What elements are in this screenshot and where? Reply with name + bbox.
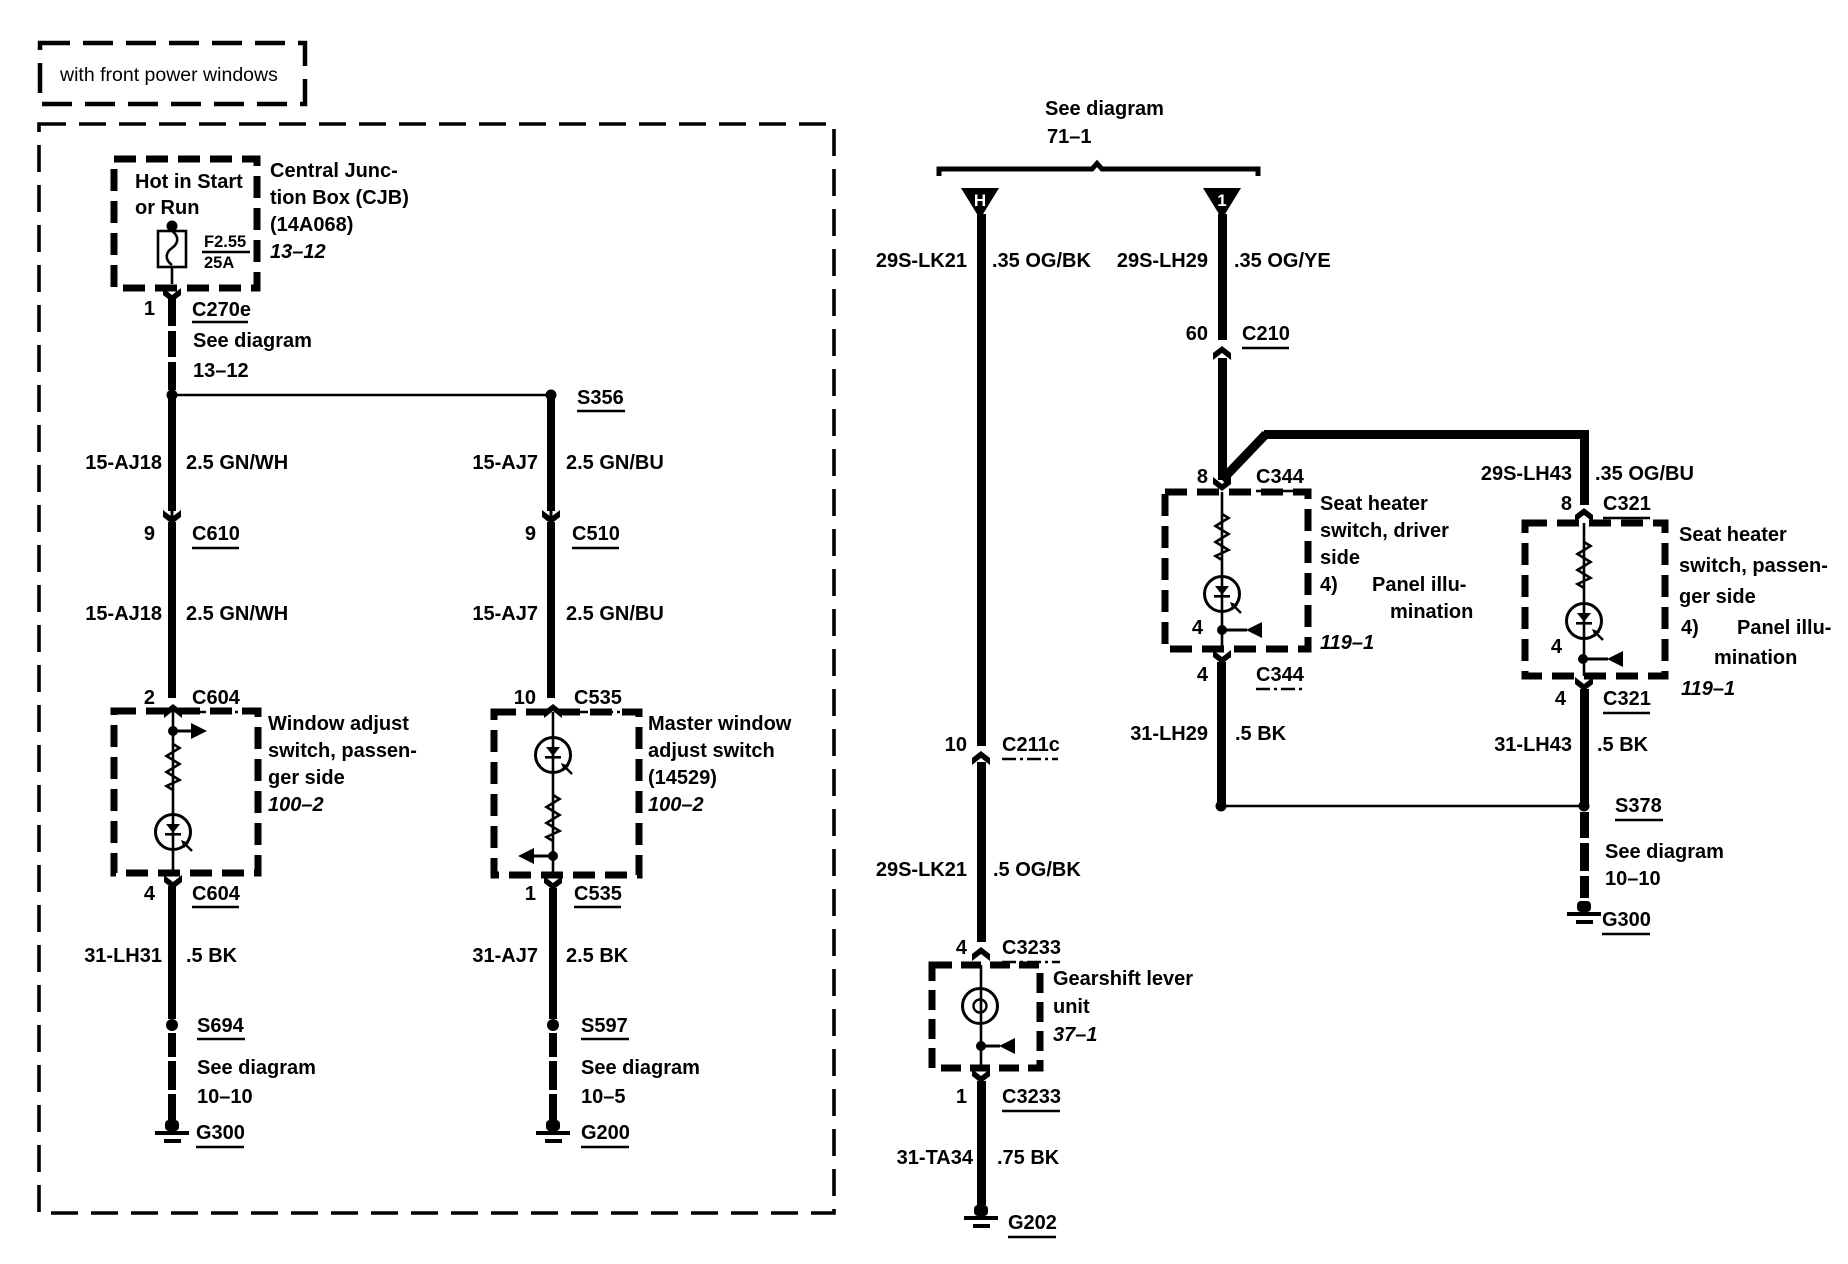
svg-text:switch, passen-: switch, passen- <box>1679 555 1828 577</box>
wire 31-LH43 run <box>1580 689 1589 806</box>
svg-text:2.5 GN/WH: 2.5 GN/WH <box>186 603 288 625</box>
connector C211c arrow (up) <box>972 751 990 765</box>
svg-text:2.5 BK: 2.5 BK <box>566 945 629 967</box>
label S694 <box>197 1015 245 1039</box>
internal wire (passenger window switch) <box>172 711 175 873</box>
connector C210 arrow (up) <box>1213 346 1231 360</box>
lamp (passenger window switch) <box>156 815 193 852</box>
pin label 60 / C210 <box>1186 323 1290 348</box>
wire 31-TA34 run <box>977 1081 986 1205</box>
svg-text:4: 4 <box>1551 636 1563 658</box>
resistor (driver seat heater) <box>1216 514 1229 560</box>
wire dashed segment to splice node <box>168 331 176 390</box>
svg-text:C270e: C270e <box>192 299 251 321</box>
svg-text:Window adjust: Window adjust <box>268 713 409 735</box>
wire labels 31-LH31 .5 BK <box>84 945 237 967</box>
svg-text:(14529): (14529) <box>648 767 717 789</box>
svg-text:.5 BK: .5 BK <box>1235 723 1287 745</box>
master window adjust switch box <box>494 712 639 875</box>
splice S378 right dot <box>1579 801 1590 812</box>
branch horizontal wire 29S-LH43 <box>1264 430 1589 439</box>
ground G200 <box>536 1120 570 1143</box>
svg-text:Panel illu-: Panel illu- <box>1737 617 1831 639</box>
svg-text:See diagram: See diagram <box>1045 98 1164 120</box>
pin label 1 / C535 lower <box>525 883 622 907</box>
connector triangle 1 <box>1203 188 1241 219</box>
svg-text:31-LH29: 31-LH29 <box>1130 723 1208 745</box>
splice branch wire to S356 <box>172 394 551 397</box>
label G300 right <box>1602 909 1651 934</box>
svg-text:C344: C344 <box>1256 664 1305 686</box>
wire labels 31-TA34 .75 BK <box>897 1147 1060 1169</box>
wiper junction dot + left arrow (master window switch) <box>518 848 558 864</box>
svg-text:G200: G200 <box>581 1122 630 1144</box>
seat heater switch driver label <box>1320 493 1473 654</box>
svg-text:2.5 GN/BU: 2.5 GN/BU <box>566 603 664 625</box>
connector C610 arrow (down) <box>163 508 181 524</box>
resistor (master window switch) <box>547 795 560 841</box>
svg-text:Seat heater: Seat heater <box>1320 493 1428 515</box>
svg-text:C211c: C211c <box>1002 734 1060 756</box>
svg-text:mination: mination <box>1714 647 1797 669</box>
svg-text:15-AJ18: 15-AJ18 <box>85 603 162 625</box>
svg-text:2.5 GN/BU: 2.5 GN/BU <box>566 452 664 474</box>
pin label 4 / C3233 <box>956 937 1061 962</box>
internal wire (master window switch) <box>552 712 555 875</box>
wire 15-AJ7 upper run <box>547 395 555 511</box>
svg-text:1: 1 <box>525 883 536 905</box>
svg-text:S356: S356 <box>577 387 624 409</box>
connector arrow pin 4 C3233 (up) <box>972 947 990 961</box>
svg-text:H: H <box>974 191 986 210</box>
label S378 <box>1615 795 1663 820</box>
wire labels 15-AJ18 2.5 GN/WH (upper) <box>85 452 288 474</box>
connector arrow pin 10 C535 (up) <box>544 704 562 718</box>
svg-text:(14A068): (14A068) <box>270 214 353 236</box>
svg-text:25A: 25A <box>204 254 234 272</box>
node dot above fuse <box>167 221 178 232</box>
svg-text:10–10: 10–10 <box>197 1086 253 1108</box>
svg-text:100–2: 100–2 <box>648 794 704 816</box>
svg-text:13–12: 13–12 <box>270 241 326 263</box>
connector arrow pin 2 C604 (up) <box>164 704 182 718</box>
svg-text:4): 4) <box>1681 617 1699 639</box>
connector arrow pin 1 C270e (down) <box>163 288 181 302</box>
pin label 10 / C211c <box>945 734 1060 759</box>
svg-text:2: 2 <box>144 687 155 709</box>
svg-text:ger side: ger side <box>268 767 345 789</box>
pin label 9 / C610 <box>144 523 240 548</box>
label S356 <box>577 387 625 411</box>
svg-text:S597: S597 <box>581 1015 628 1037</box>
branch corner down to C321 <box>1580 430 1589 505</box>
wire 31-LH29 run <box>1217 662 1226 806</box>
svg-text:.35 OG/BU: .35 OG/BU <box>1595 463 1694 485</box>
fuse holder box (Hot in Start or Run) <box>114 159 257 288</box>
wire labels 15-AJ7 2.5 GN/BU (upper) <box>472 452 663 474</box>
see diagram 71-1 note <box>1045 98 1164 148</box>
fuse F2.55 25A <box>158 231 250 284</box>
wire H upper run <box>977 214 986 746</box>
label G202 <box>1008 1212 1057 1237</box>
svg-text:C604: C604 <box>192 687 241 709</box>
svg-text:Hot in Start: Hot in Start <box>135 171 243 193</box>
svg-text:100–2: 100–2 <box>268 794 324 816</box>
wire 15-AJ7 lower run <box>547 522 555 698</box>
svg-text:C321: C321 <box>1603 688 1651 710</box>
resistor (passenger window switch) <box>167 744 180 790</box>
CJB title text <box>270 160 409 263</box>
svg-text:8: 8 <box>1561 493 1572 515</box>
svg-text:G300: G300 <box>1602 909 1651 931</box>
svg-text:C610: C610 <box>192 523 240 545</box>
bracket over connectors <box>939 164 1258 177</box>
splice S694 dot <box>166 1019 178 1031</box>
svg-text:9: 9 <box>525 523 536 545</box>
svg-text:1: 1 <box>1217 191 1226 210</box>
pin label 1 / C270e <box>144 298 251 322</box>
pin label 8 / C321 <box>1561 493 1651 518</box>
svg-text:F2.55: F2.55 <box>204 233 246 251</box>
master window adjust switch label <box>648 713 792 816</box>
svg-text:side: side <box>1320 547 1360 569</box>
svg-text:29S-LK21: 29S-LK21 <box>876 859 967 881</box>
svg-text:8: 8 <box>1197 466 1208 488</box>
lamp (master window switch) <box>536 738 573 775</box>
svg-text:S694: S694 <box>197 1015 245 1037</box>
svg-text:See diagram: See diagram <box>1605 841 1724 863</box>
pin label 10 / C535 <box>514 687 622 712</box>
label G300 left <box>196 1122 245 1147</box>
svg-text:or Run: or Run <box>135 197 199 219</box>
svg-text:adjust switch: adjust switch <box>648 740 775 762</box>
svg-text:1: 1 <box>956 1086 967 1108</box>
svg-text:C210: C210 <box>1242 323 1290 345</box>
svg-text:C535: C535 <box>574 883 622 905</box>
svg-text:4: 4 <box>956 937 968 959</box>
svg-text:119–1: 119–1 <box>1320 632 1374 654</box>
svg-text:10: 10 <box>945 734 967 756</box>
outer dashed harness box <box>39 124 834 1213</box>
pin label 4 / C344 lower <box>1197 664 1305 689</box>
internal wire (passenger seat heater) <box>1583 523 1586 676</box>
pin label 9 / C510 <box>525 523 620 548</box>
dashed wire S378 to G300 <box>1580 812 1589 898</box>
svg-text:31-AJ7: 31-AJ7 <box>472 945 538 967</box>
svg-text:See diagram: See diagram <box>581 1057 700 1079</box>
label S597 <box>581 1015 629 1039</box>
svg-text:13–12: 13–12 <box>193 360 249 382</box>
svg-text:15-AJ7: 15-AJ7 <box>472 452 538 474</box>
wire labels 15-AJ18 2.5 GN/WH (lower) <box>85 603 288 625</box>
svg-text:31-LH43: 31-LH43 <box>1494 734 1572 756</box>
svg-text:Gearshift lever: Gearshift lever <box>1053 968 1193 990</box>
svg-text:switch, driver: switch, driver <box>1320 520 1449 542</box>
option box "with front power windows" <box>40 43 305 104</box>
wire labels 29S-LK21 .35 OG/BK <box>876 250 1092 272</box>
svg-text:4: 4 <box>144 883 156 905</box>
wire fuse output solid <box>168 298 176 326</box>
wire 31-LH31 run <box>168 886 176 1019</box>
svg-text:Master window: Master window <box>648 713 792 735</box>
svg-text:4: 4 <box>1555 688 1567 710</box>
connector arrow pin 4 C604 (down) <box>164 875 182 889</box>
svg-text:4: 4 <box>1192 617 1204 639</box>
pin label 8 / C344 <box>1197 466 1305 491</box>
svg-text:.5 BK: .5 BK <box>1597 734 1649 756</box>
pin label 4 / C321 lower <box>1555 688 1651 713</box>
ground G300 right <box>1567 901 1601 924</box>
connector arrow pin 4 C344 (down) <box>1213 650 1231 664</box>
wire 15-AJ18 lower run <box>168 522 176 698</box>
wire labels 29S-LK21 .5 OG/BK <box>876 859 1082 881</box>
svg-text:10–10: 10–10 <box>1605 868 1661 890</box>
svg-text:31-TA34: 31-TA34 <box>897 1147 974 1169</box>
svg-text:G202: G202 <box>1008 1212 1057 1234</box>
wire labels 15-AJ7 2.5 GN/BU (lower) <box>472 603 663 625</box>
svg-text:.5 BK: .5 BK <box>186 945 238 967</box>
wiper junction dot + arrow (passenger seat heater) <box>1578 651 1623 667</box>
svg-text:60: 60 <box>1186 323 1208 345</box>
svg-text:29S-LK21: 29S-LK21 <box>876 250 967 272</box>
wire labels 29S-LH29 .35 OG/YE <box>1117 250 1331 272</box>
pin label 2 / C604 <box>144 687 241 712</box>
svg-text:C3233: C3233 <box>1002 1086 1061 1108</box>
splice branch wire S378 <box>1221 805 1584 808</box>
svg-text:9: 9 <box>144 523 155 545</box>
svg-text:71–1: 71–1 <box>1047 126 1092 148</box>
wiper junction dot + right arrow (passenger window switch) <box>168 723 207 739</box>
window adjust switch passenger box <box>114 711 258 873</box>
lamp (passenger seat heater) <box>1567 604 1604 641</box>
svg-text:4: 4 <box>1197 664 1209 686</box>
gearshift lever unit box <box>932 965 1040 1068</box>
connector C510 arrow (down) <box>542 508 560 524</box>
see diagram 10-10 note (left) <box>197 1057 316 1108</box>
svg-text:.35 OG/BK: .35 OG/BK <box>992 250 1091 272</box>
svg-text:C344: C344 <box>1256 466 1305 488</box>
splice S378 left dot <box>1216 801 1227 812</box>
svg-text:29S-LH29: 29S-LH29 <box>1117 250 1208 272</box>
svg-text:C3233: C3233 <box>1002 937 1061 959</box>
wire 31-AJ7 run <box>549 888 557 1019</box>
dashed wire S694 to G300 <box>168 1033 176 1120</box>
connector arrow pin 1 C535 (down) <box>544 876 562 890</box>
svg-text:4): 4) <box>1320 574 1338 596</box>
dashed wire S597 to G200 <box>549 1033 557 1120</box>
wire H lower run <box>977 762 986 942</box>
wire 1 lower run to pin 8 <box>1218 358 1227 480</box>
seat heater switch driver box <box>1165 492 1308 649</box>
branch diagonal wire to passenger seat heater <box>1222 434 1266 480</box>
svg-text:10: 10 <box>514 687 536 709</box>
svg-text:37–1: 37–1 <box>1053 1024 1098 1046</box>
svg-text:See diagram: See diagram <box>197 1057 316 1079</box>
node junction dot left <box>167 390 178 401</box>
svg-text:Central Junc-: Central Junc- <box>270 160 398 182</box>
wire labels 31-AJ7 2.5 BK <box>472 945 628 967</box>
internal wire (gearshift) <box>980 965 983 1068</box>
svg-text:G300: G300 <box>196 1122 245 1144</box>
svg-text:C321: C321 <box>1603 493 1651 515</box>
connector triangle H <box>961 188 999 219</box>
svg-text:10–5: 10–5 <box>581 1086 626 1108</box>
label G200 <box>581 1122 630 1147</box>
window adjust switch passenger label <box>268 713 417 816</box>
connector arrow pin 8 C344 (down) <box>1213 477 1231 491</box>
svg-text:31-LH31: 31-LH31 <box>84 945 162 967</box>
svg-text:with front power windows: with front power windows <box>59 64 278 86</box>
see diagram 10-10 note (right) <box>1605 841 1724 890</box>
svg-text:switch, passen-: switch, passen- <box>268 740 417 762</box>
svg-text:1: 1 <box>144 298 155 320</box>
node S356 dot <box>546 390 557 401</box>
wire 15-AJ18 upper run <box>168 395 176 511</box>
svg-text:.75 BK: .75 BK <box>997 1147 1060 1169</box>
svg-text:Seat heater: Seat heater <box>1679 524 1787 546</box>
wire 1 upper run <box>1218 214 1227 340</box>
svg-text:29S-LH43: 29S-LH43 <box>1481 463 1572 485</box>
svg-text:15-AJ7: 15-AJ7 <box>472 603 538 625</box>
see diagram 13-12 note <box>193 330 312 382</box>
svg-text:ger side: ger side <box>1679 586 1756 608</box>
see diagram 10-5 note <box>581 1057 700 1108</box>
svg-text:2.5 GN/WH: 2.5 GN/WH <box>186 452 288 474</box>
connector arrow pin 1 C3233 (down) <box>972 1069 990 1083</box>
wire labels 29S-LH43 .35 OG/BU <box>1481 463 1694 485</box>
svg-text:.5 OG/BK: .5 OG/BK <box>993 859 1081 881</box>
internal wire (driver seat heater) <box>1221 492 1224 649</box>
resistor (passenger seat heater) <box>1578 542 1591 588</box>
svg-text:See diagram: See diagram <box>193 330 312 352</box>
wiper junction dot + arrow (gearshift) <box>976 1038 1015 1054</box>
ground G202 <box>964 1205 998 1228</box>
wire labels 31-LH43 .5 BK <box>1494 734 1648 756</box>
svg-text:119–1: 119–1 <box>1681 678 1735 700</box>
svg-text:C604: C604 <box>192 883 241 905</box>
svg-text:C510: C510 <box>572 523 620 545</box>
lamp (driver seat heater) <box>1205 577 1242 614</box>
wire labels 31-LH29 .5 BK <box>1130 723 1286 745</box>
gearshift lever unit label <box>1053 968 1193 1046</box>
svg-text:S378: S378 <box>1615 795 1662 817</box>
svg-text:15-AJ18: 15-AJ18 <box>85 452 162 474</box>
seat heater switch passenger label <box>1679 524 1831 700</box>
svg-text:tion Box (CJB): tion Box (CJB) <box>270 187 409 209</box>
bulb (gearshift) <box>963 989 998 1024</box>
svg-text:unit: unit <box>1053 996 1090 1018</box>
wiper junction dot + arrow (driver seat heater) <box>1217 622 1262 638</box>
pin label 4 / C604 lower <box>144 883 241 907</box>
seat heater switch passenger box <box>1525 523 1665 676</box>
svg-text:mination: mination <box>1390 601 1473 623</box>
pin label 1 / C3233 lower <box>956 1086 1061 1111</box>
svg-text:Panel illu-: Panel illu- <box>1372 574 1466 596</box>
splice S597 dot <box>547 1019 559 1031</box>
svg-text:C535: C535 <box>574 687 622 709</box>
ground G300 left <box>155 1120 189 1143</box>
svg-text:.35 OG/YE: .35 OG/YE <box>1234 250 1331 272</box>
connector arrow pin 4 C321 (down) <box>1575 677 1593 691</box>
connector arrow pin 8 C321 (up) <box>1575 508 1593 522</box>
